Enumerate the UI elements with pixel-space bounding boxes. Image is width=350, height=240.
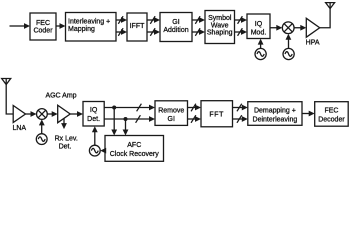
wire bus I Symbol Wave Shaping to IQ Mod xyxy=(235,16,248,24)
svg-text:Decoder: Decoder xyxy=(318,117,345,124)
svg-text:IQ: IQ xyxy=(255,21,263,28)
block GI Addition U4 xyxy=(160,13,192,42)
wire AFC Clock Recovery to OSC4 xyxy=(100,148,106,154)
wire bus Q FFT to Demapping xyxy=(233,115,248,123)
svg-text:Symbol: Symbol xyxy=(208,15,232,22)
wire bus Q IQ Det to Remove GI xyxy=(104,115,155,123)
svg-text:IQ: IQ xyxy=(90,107,98,114)
wire Q junction to AFC Clock Recovery xyxy=(123,119,129,136)
wire Demapping to FEC Decoder xyxy=(302,111,315,117)
wire OSC1 to IQ Mod xyxy=(258,39,264,49)
wire bus I IFFT to GI Addition xyxy=(147,16,160,24)
svg-text:Deinterleaving: Deinterleaving xyxy=(253,117,298,124)
svg-text:Wave: Wave xyxy=(211,22,229,29)
amplifier AGC Amp xyxy=(45,93,76,123)
svg-text:Demapping +: Demapping + xyxy=(254,108,296,115)
wire HPA to antenna ANT1 xyxy=(320,9,330,28)
oscillator OSC2 LO for MX1 xyxy=(283,48,294,59)
wire AGC Amp branch to Rx Lev Det xyxy=(61,119,67,130)
oscillator OSC4 VCO for IQ Det xyxy=(89,145,100,156)
block FEC Decoder U11 xyxy=(315,102,349,127)
svg-text:IFFT: IFFT xyxy=(130,23,145,30)
svg-text:Clock Recovery: Clock Recovery xyxy=(110,151,160,158)
wire LNA to mixer MX2 xyxy=(26,111,37,117)
wire MX2 to AGC Amp xyxy=(47,111,57,117)
mixer MX2 xyxy=(37,109,48,120)
svg-text:Rx Lev.: Rx Lev. xyxy=(55,136,78,143)
antenna ANT2 receive xyxy=(2,79,11,85)
block IQ Mod U6 xyxy=(247,14,270,39)
wire bus I GI Addition to Symbol Wave Shaping xyxy=(192,16,205,24)
wire IQ Mod to mixer MX1 xyxy=(270,25,282,31)
wire input to FEC Coder xyxy=(10,23,31,29)
wire bus Q Symbol Wave Shaping to IQ Mod xyxy=(235,28,248,36)
svg-text:Shaping: Shaping xyxy=(207,30,233,37)
wire bus Q GI Addition to Symbol Wave Shaping xyxy=(192,28,205,36)
wire bus I Remove GI to FFT xyxy=(188,104,202,112)
svg-text:Coder: Coder xyxy=(33,28,53,35)
svg-text:Det.: Det. xyxy=(59,143,72,150)
svg-text:AFC: AFC xyxy=(127,142,141,149)
svg-text:Remove: Remove xyxy=(158,107,184,114)
svg-text:AGC Amp: AGC Amp xyxy=(45,93,76,100)
wire bus I Interleaving to IFFT xyxy=(116,16,127,24)
block AFC Clock Recovery U12 xyxy=(105,136,164,162)
svg-text:Det.: Det. xyxy=(87,116,100,123)
wire FEC Coder to Interleaving xyxy=(56,23,66,29)
svg-text:GI: GI xyxy=(172,19,179,26)
node junction I line xyxy=(112,106,116,110)
wire I junction to AFC Clock Recovery xyxy=(111,108,117,136)
svg-text:GI: GI xyxy=(168,116,175,123)
amplifier LNA xyxy=(12,106,26,132)
svg-text:Mapping: Mapping xyxy=(68,26,95,33)
wire bus I IQ Det to Remove GI xyxy=(104,104,155,112)
svg-text:FEC: FEC xyxy=(36,20,50,27)
node junction Q line xyxy=(124,117,128,121)
wire bus Q Remove GI to FFT xyxy=(188,115,202,123)
svg-text:FEC: FEC xyxy=(324,108,338,115)
wire OSC3 to mixer MX2 xyxy=(39,119,45,133)
block Interleaving + Mapping U2 xyxy=(66,13,117,42)
block IFFT U3 xyxy=(127,13,147,41)
block FFT U9 xyxy=(201,101,233,127)
wire bus Q IFFT to GI Addition xyxy=(147,28,160,36)
block Demapping + Deinterleaving U10 xyxy=(248,102,302,126)
svg-text:Addition: Addition xyxy=(163,27,188,34)
wire ANT2 to LNA xyxy=(6,85,13,115)
mixer MX1 xyxy=(282,22,294,34)
wire OSC4 to IQ Det xyxy=(92,126,98,145)
svg-text:LNA: LNA xyxy=(12,125,26,132)
antenna ANT1 transmit xyxy=(326,3,335,9)
wire bus Q Interleaving to IFFT xyxy=(116,28,127,36)
block IQ Det U7 xyxy=(83,102,104,127)
oscillator OSC3 LO for MX2 xyxy=(36,134,47,145)
block Symbol Wave Shaping U5 xyxy=(205,11,235,44)
label Rx Lev. Det. xyxy=(55,136,78,151)
oscillator OSC1 carrier for IQ Mod xyxy=(255,48,266,59)
block Remove GI U8 xyxy=(155,101,188,126)
wire bus I FFT to Demapping xyxy=(233,104,248,112)
wire MX1 to HPA xyxy=(294,25,306,31)
svg-text:Mod.: Mod. xyxy=(251,29,267,36)
wire OSC2 to mixer MX1 xyxy=(286,34,292,49)
block FEC Coder U1 xyxy=(30,13,56,40)
svg-text:FFT: FFT xyxy=(209,111,224,118)
svg-text:Interleaving +: Interleaving + xyxy=(68,19,110,26)
svg-text:HPA: HPA xyxy=(306,40,320,47)
amplifier HPA xyxy=(306,18,320,46)
wire AGC Amp to IQ Det xyxy=(70,111,83,117)
